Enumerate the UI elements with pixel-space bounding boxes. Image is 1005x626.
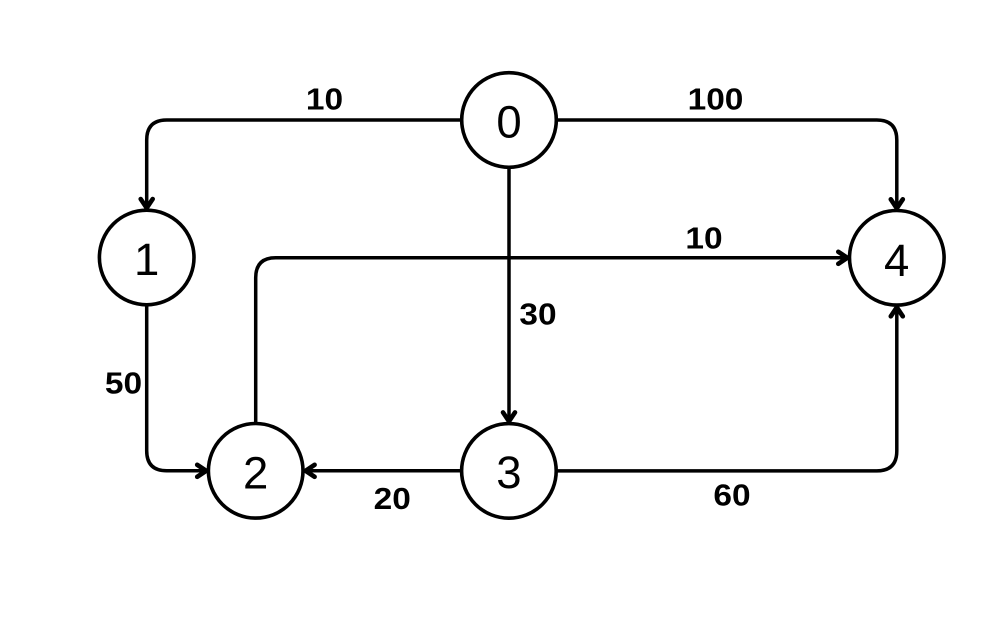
svg-text:3: 3	[496, 447, 521, 498]
svg-text:10: 10	[685, 220, 722, 255]
svg-text:4: 4	[884, 235, 909, 286]
svg-text:30: 30	[519, 296, 556, 331]
svg-text:10: 10	[306, 81, 343, 116]
svg-text:20: 20	[374, 481, 411, 516]
svg-text:50: 50	[105, 365, 142, 400]
svg-text:2: 2	[243, 447, 268, 498]
svg-text:60: 60	[713, 477, 750, 512]
svg-text:1: 1	[134, 234, 159, 285]
svg-text:100: 100	[688, 81, 744, 116]
svg-text:0: 0	[496, 96, 521, 147]
